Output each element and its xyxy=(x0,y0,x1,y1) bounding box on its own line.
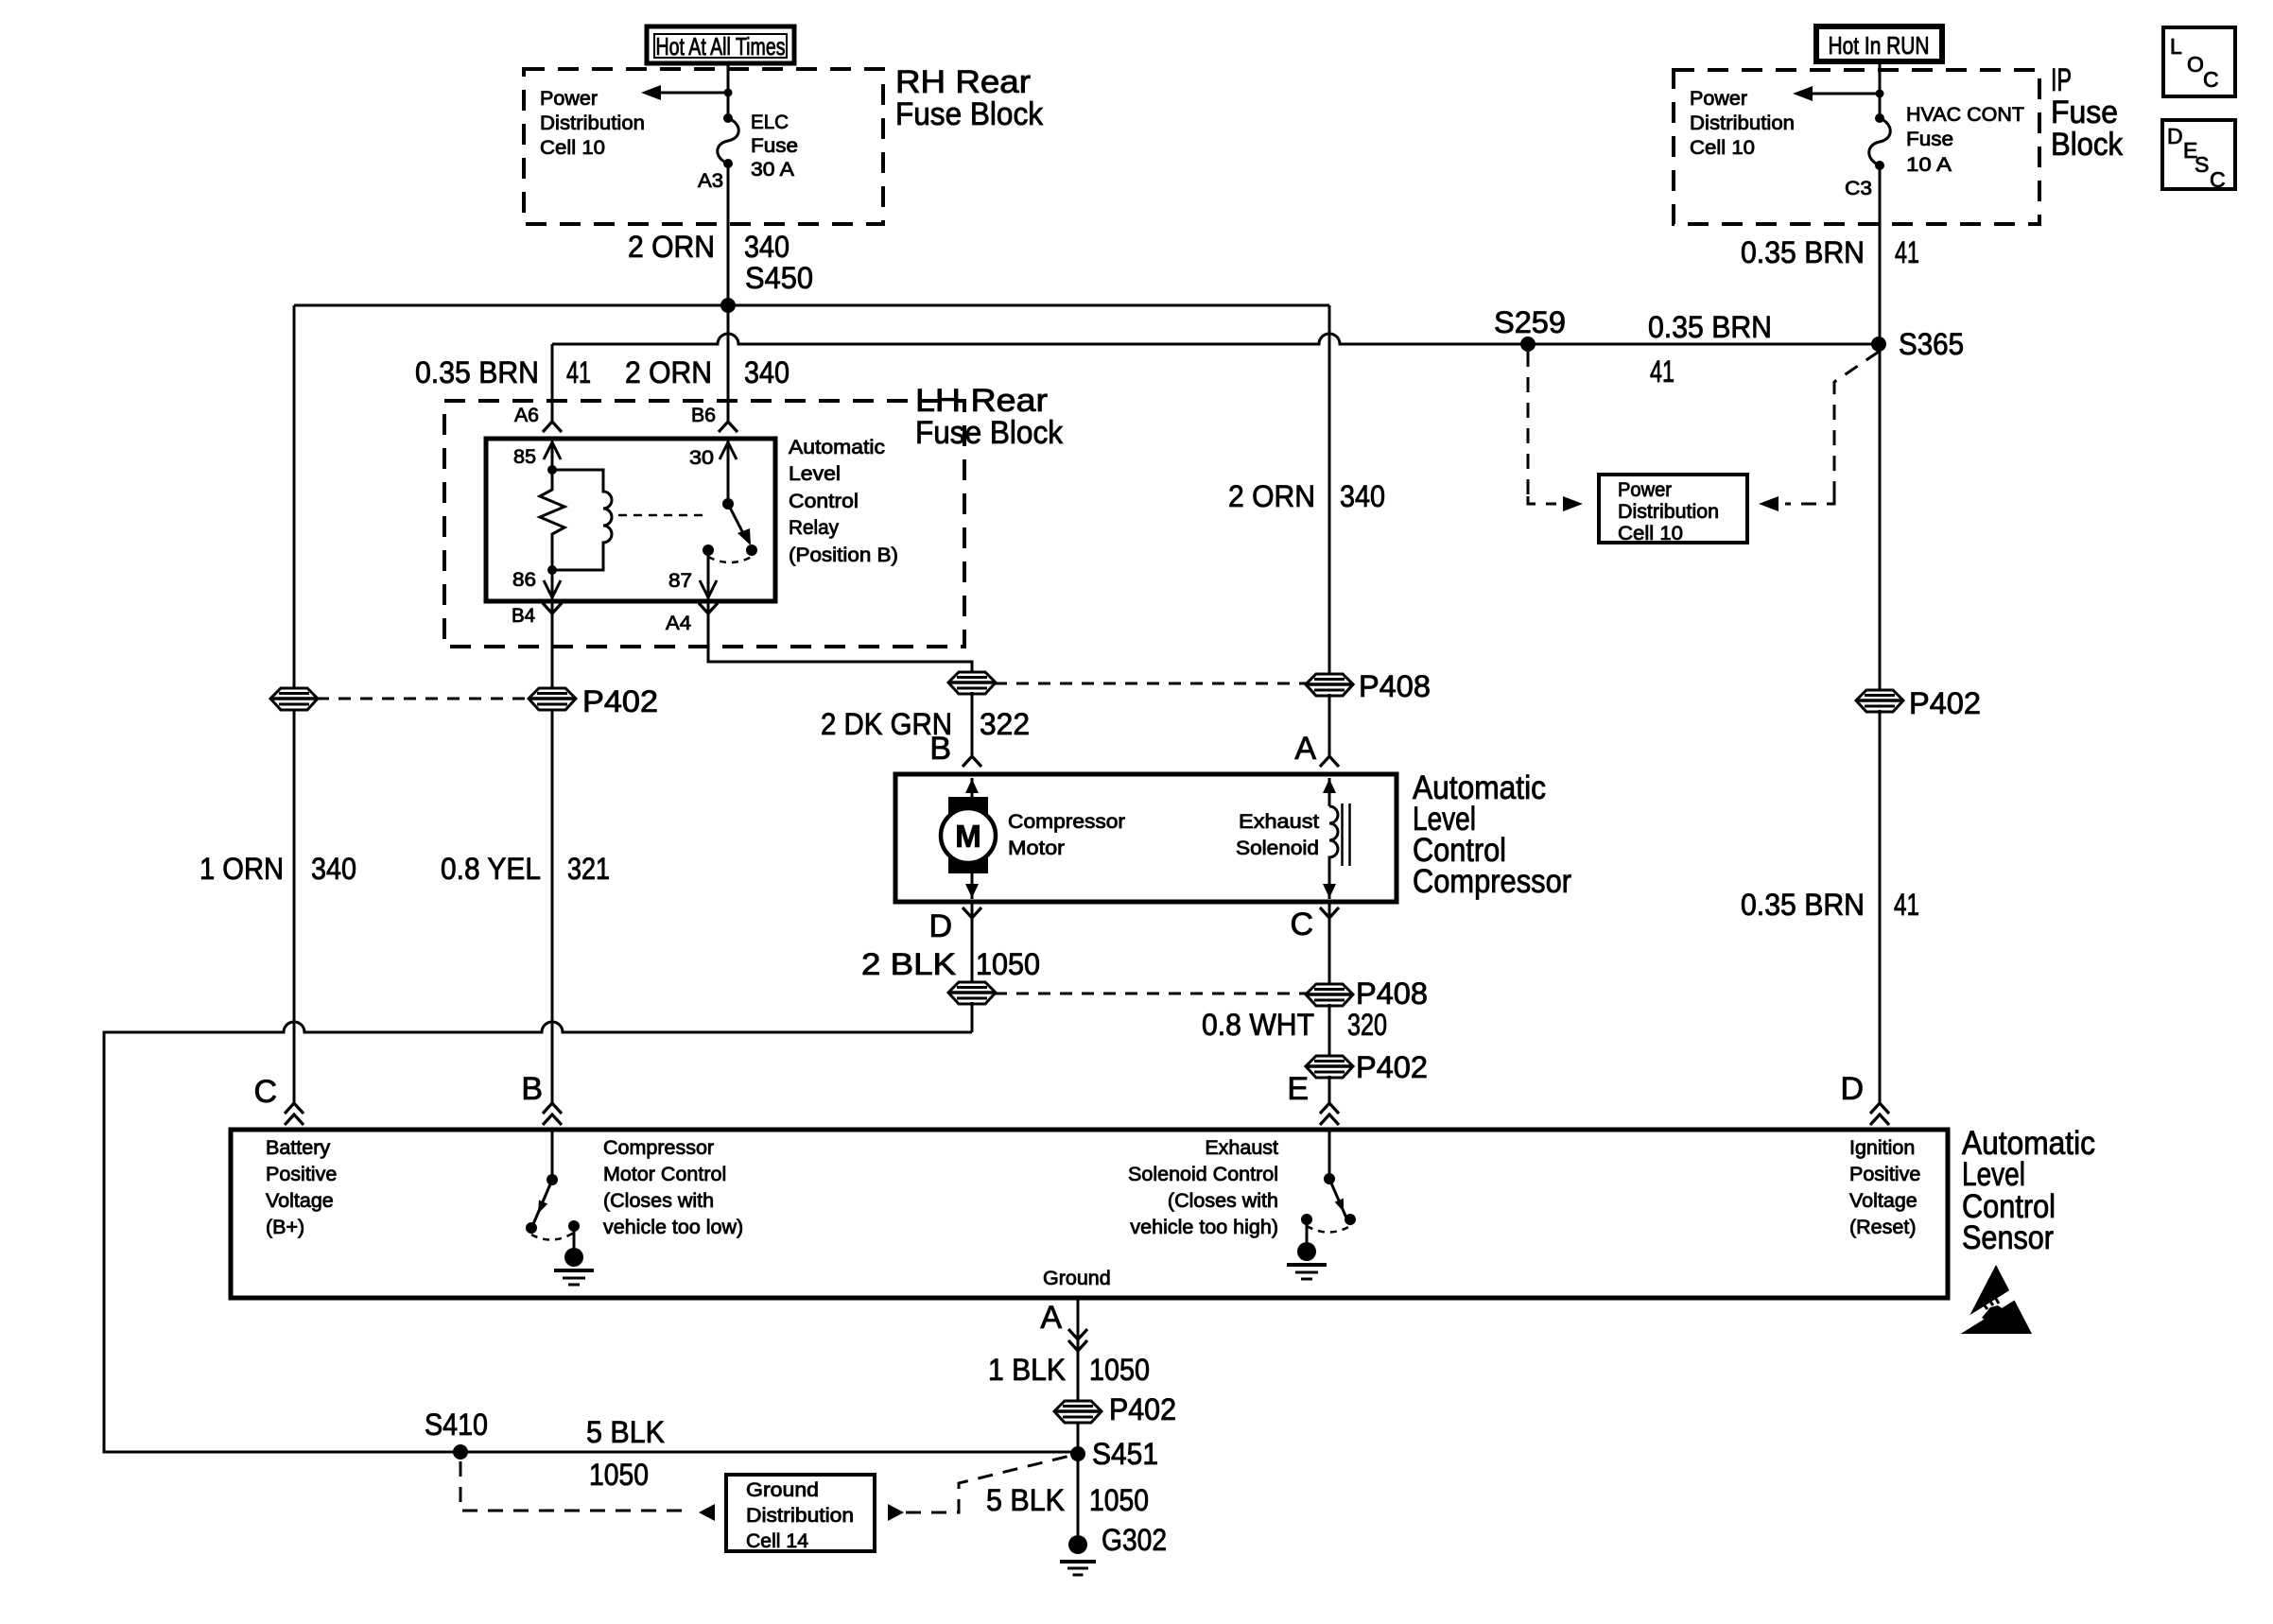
svg-text:Sensor: Sensor xyxy=(1962,1219,2054,1256)
svg-text:D: D xyxy=(2167,124,2183,148)
svg-text:S: S xyxy=(2195,152,2209,177)
svg-text:1050: 1050 xyxy=(976,947,1040,981)
svg-text:(Position B): (Position B) xyxy=(789,544,898,566)
svg-text:B: B xyxy=(929,731,951,767)
svg-text:2 ORN: 2 ORN xyxy=(1228,479,1315,513)
svg-text:IP: IP xyxy=(2051,62,2072,98)
svg-text:G302: G302 xyxy=(1102,1523,1167,1557)
svg-text:340: 340 xyxy=(744,355,789,389)
svg-text:P402: P402 xyxy=(1356,1050,1428,1084)
svg-text:(Closes with: (Closes with xyxy=(1168,1189,1278,1212)
svg-text:Fuse Block: Fuse Block xyxy=(895,96,1044,132)
svg-text:Control: Control xyxy=(789,490,859,512)
svg-text:P408: P408 xyxy=(1359,669,1431,703)
svg-text:0.35 BRN: 0.35 BRN xyxy=(1648,310,1772,344)
svg-text:HVAC CONT: HVAC CONT xyxy=(1906,103,2024,126)
svg-text:P402: P402 xyxy=(1109,1392,1176,1426)
svg-text:Fuse: Fuse xyxy=(2051,95,2118,130)
svg-text:Hot At All Times: Hot At All Times xyxy=(656,32,786,60)
svg-text:1 ORN: 1 ORN xyxy=(200,852,284,886)
svg-text:1050: 1050 xyxy=(1089,1483,1149,1517)
svg-text:O: O xyxy=(2187,52,2204,77)
svg-text:Distribution: Distribution xyxy=(746,1504,854,1527)
svg-text:2 ORN: 2 ORN xyxy=(625,355,712,389)
svg-text:Cell 10: Cell 10 xyxy=(540,136,605,159)
svg-text:M: M xyxy=(955,819,981,854)
svg-text:(B+): (B+) xyxy=(266,1216,304,1238)
svg-text:Distribution: Distribution xyxy=(540,112,645,134)
svg-text:B4: B4 xyxy=(512,604,535,627)
svg-text:Voltage: Voltage xyxy=(266,1189,334,1212)
svg-text:41: 41 xyxy=(1895,235,1919,269)
svg-text:5 BLK: 5 BLK xyxy=(586,1415,665,1449)
svg-text:vehicle too high): vehicle too high) xyxy=(1130,1216,1278,1238)
svg-text:(Reset): (Reset) xyxy=(1849,1216,1916,1238)
svg-text:Level: Level xyxy=(789,462,841,485)
svg-text:E: E xyxy=(1287,1071,1309,1107)
svg-text:2 BLK: 2 BLK xyxy=(861,947,956,981)
svg-text:C: C xyxy=(1290,907,1313,942)
svg-text:B: B xyxy=(521,1071,543,1107)
svg-text:Motor: Motor xyxy=(1008,837,1065,859)
svg-text:Positive: Positive xyxy=(266,1163,337,1185)
svg-text:Exhaust: Exhaust xyxy=(1205,1136,1278,1159)
svg-text:Solenoid: Solenoid xyxy=(1236,837,1319,859)
svg-text:Voltage: Voltage xyxy=(1849,1189,1917,1212)
svg-text:A6: A6 xyxy=(514,404,539,426)
svg-text:P402: P402 xyxy=(1909,686,1981,720)
svg-text:1050: 1050 xyxy=(589,1458,649,1492)
svg-text:Positive: Positive xyxy=(1849,1163,1920,1185)
svg-text:B6: B6 xyxy=(691,404,716,426)
svg-text:ELC: ELC xyxy=(751,111,789,133)
svg-text:S410: S410 xyxy=(425,1408,488,1442)
svg-text:41: 41 xyxy=(1650,354,1674,389)
svg-text:Block: Block xyxy=(2051,127,2124,163)
svg-text:Compressor: Compressor xyxy=(1008,810,1125,833)
svg-text:41: 41 xyxy=(566,355,591,389)
svg-text:Distribution: Distribution xyxy=(1690,112,1795,134)
svg-text:Cell 10: Cell 10 xyxy=(1690,136,1755,159)
svg-text:30: 30 xyxy=(689,446,714,469)
svg-text:340: 340 xyxy=(311,852,356,886)
svg-text:LH Rear: LH Rear xyxy=(915,383,1048,419)
svg-text:S450: S450 xyxy=(745,261,813,295)
svg-text:0.35 BRN: 0.35 BRN xyxy=(1741,888,1865,922)
svg-text:A4: A4 xyxy=(666,612,691,634)
svg-text:1050: 1050 xyxy=(1089,1353,1150,1387)
svg-text:P402: P402 xyxy=(582,684,658,718)
svg-text:S259: S259 xyxy=(1494,305,1566,339)
svg-text:Battery: Battery xyxy=(266,1136,330,1159)
svg-text:RH Rear: RH Rear xyxy=(895,64,1031,100)
svg-text:85: 85 xyxy=(513,445,536,468)
svg-text:322: 322 xyxy=(980,707,1030,741)
svg-text:320: 320 xyxy=(1347,1008,1387,1042)
svg-text:D: D xyxy=(928,908,952,944)
svg-text:Power: Power xyxy=(540,87,598,110)
svg-text:D: D xyxy=(1840,1071,1864,1107)
svg-text:321: 321 xyxy=(567,852,610,886)
svg-text:10 A: 10 A xyxy=(1906,153,1952,176)
svg-text:Compressor: Compressor xyxy=(1413,863,1571,900)
svg-text:Ignition: Ignition xyxy=(1849,1136,1915,1159)
svg-text:Fuse Block: Fuse Block xyxy=(915,415,1064,451)
svg-text:1 BLK: 1 BLK xyxy=(988,1353,1066,1387)
svg-text:A: A xyxy=(1040,1300,1062,1336)
svg-text:0.35 BRN: 0.35 BRN xyxy=(415,355,539,389)
svg-text:Cell 14: Cell 14 xyxy=(746,1529,808,1552)
svg-text:5 BLK: 5 BLK xyxy=(986,1483,1065,1517)
svg-text:Solenoid Control: Solenoid Control xyxy=(1128,1163,1278,1185)
svg-text:0.35 BRN: 0.35 BRN xyxy=(1741,235,1865,269)
svg-text:Distribution: Distribution xyxy=(1618,500,1719,523)
svg-text:Automatic: Automatic xyxy=(789,436,885,458)
svg-text:L: L xyxy=(2170,34,2182,59)
svg-text:Cell 10: Cell 10 xyxy=(1618,522,1683,544)
svg-text:Hot In RUN: Hot In RUN xyxy=(1829,31,1930,60)
svg-text:Power: Power xyxy=(1690,87,1747,110)
svg-text:vehicle too low): vehicle too low) xyxy=(603,1216,743,1238)
svg-text:30 A: 30 A xyxy=(751,158,795,181)
svg-text:Exhaust: Exhaust xyxy=(1239,810,1319,833)
svg-text:(Closes with: (Closes with xyxy=(603,1189,714,1212)
svg-text:S451: S451 xyxy=(1092,1437,1158,1471)
svg-text:A3: A3 xyxy=(698,169,723,192)
svg-text:86: 86 xyxy=(512,568,536,591)
svg-text:S365: S365 xyxy=(1899,327,1964,361)
svg-text:Motor Control: Motor Control xyxy=(603,1163,726,1185)
svg-text:Fuse: Fuse xyxy=(1906,128,1953,150)
svg-text:C3: C3 xyxy=(1845,177,1872,199)
svg-text:P408: P408 xyxy=(1356,976,1428,1011)
svg-text:Ground: Ground xyxy=(746,1478,819,1501)
svg-text:0.8 YEL: 0.8 YEL xyxy=(441,852,541,886)
svg-text:Compressor: Compressor xyxy=(603,1136,714,1159)
svg-text:C: C xyxy=(2203,67,2219,92)
svg-text:Ground: Ground xyxy=(1043,1267,1111,1289)
svg-text:41: 41 xyxy=(1894,888,1919,922)
svg-text:340: 340 xyxy=(1340,479,1385,513)
svg-text:0.8 WHT: 0.8 WHT xyxy=(1202,1008,1314,1042)
svg-text:87: 87 xyxy=(668,569,692,592)
svg-text:Power: Power xyxy=(1618,478,1672,501)
svg-text:Fuse: Fuse xyxy=(751,134,798,157)
svg-text:340: 340 xyxy=(744,230,789,264)
svg-text:A: A xyxy=(1294,731,1316,767)
svg-text:Relay: Relay xyxy=(789,516,839,539)
svg-text:C: C xyxy=(2210,167,2226,192)
svg-text:2 ORN: 2 ORN xyxy=(628,230,715,264)
svg-text:C: C xyxy=(253,1074,277,1110)
